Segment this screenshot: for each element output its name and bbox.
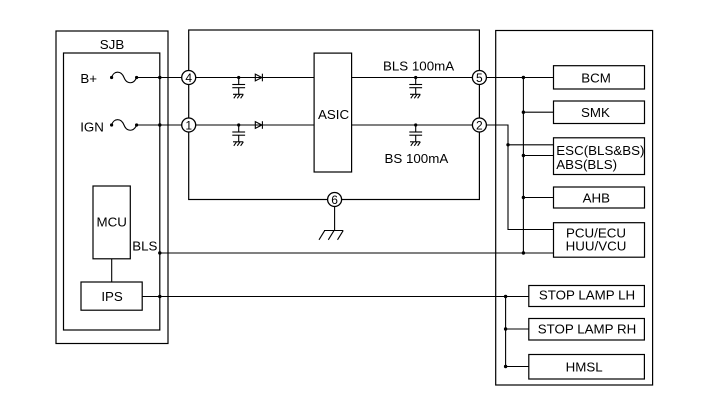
- svg-text:IGN: IGN: [80, 119, 104, 134]
- svg-text:4: 4: [185, 71, 192, 85]
- svg-text:ASIC: ASIC: [318, 107, 349, 122]
- svg-text:STOP LAMP LH: STOP LAMP LH: [539, 288, 635, 303]
- svg-text:SJB: SJB: [100, 37, 125, 52]
- svg-text:MCU: MCU: [97, 214, 127, 229]
- svg-text:IPS: IPS: [101, 289, 123, 304]
- svg-text:ABS(BLS): ABS(BLS): [556, 157, 617, 172]
- svg-text:BLS 100mA: BLS 100mA: [383, 59, 454, 74]
- svg-text:1: 1: [185, 118, 192, 132]
- svg-text:6: 6: [331, 193, 338, 207]
- svg-text:BS 100mA: BS 100mA: [385, 151, 449, 166]
- svg-text:5: 5: [476, 71, 483, 85]
- svg-text:STOP LAMP RH: STOP LAMP RH: [538, 321, 637, 336]
- svg-text:BLS: BLS: [132, 239, 157, 254]
- svg-text:ESC(BLS&BS): ESC(BLS&BS): [556, 143, 644, 158]
- svg-text:B+: B+: [80, 71, 97, 86]
- svg-text:BCM: BCM: [581, 71, 611, 86]
- svg-text:2: 2: [476, 118, 483, 132]
- svg-text:HMSL: HMSL: [566, 360, 603, 375]
- svg-text:AHB: AHB: [583, 191, 611, 206]
- svg-text:SMK: SMK: [581, 105, 610, 120]
- svg-text:HUU/VCU: HUU/VCU: [566, 239, 627, 254]
